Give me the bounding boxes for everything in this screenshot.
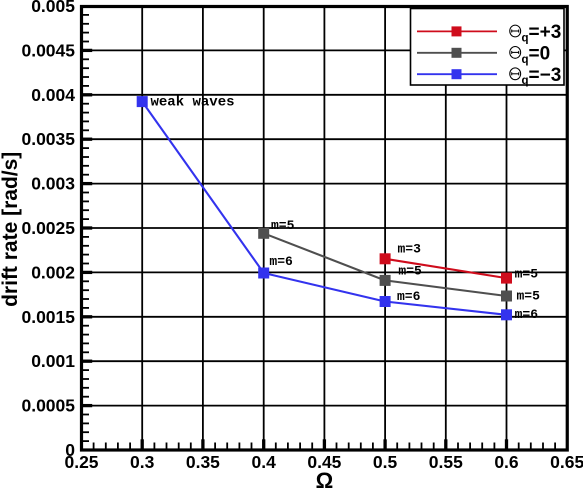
y minor tick [83,147,89,149]
svg-text:m=6: m=6 [397,289,421,304]
x minor tick [287,443,289,449]
svg-text:weak waves: weak waves [151,94,235,110]
y minor tick [83,23,89,25]
legend row 1 marker [452,26,462,36]
x minor tick [153,443,155,449]
y gridline v=0.0025 [82,227,568,229]
y minor tick [83,298,89,300]
y minor tick [83,387,89,389]
legend row 3 Theta symbol [510,68,521,80]
legend row 2 marker [452,48,462,58]
x minor tick [190,443,192,449]
series Theta_q=-3 line (blue) [142,102,506,315]
y minor tick [83,192,89,194]
y major tick 0.003 [83,182,92,185]
x minor tick [469,443,471,449]
x minor tick [214,443,216,449]
x minor tick [408,443,410,449]
y gridline v=0.002 [82,271,568,273]
x minor tick [336,443,338,449]
marker gray Omega=0.6 [501,291,512,302]
svg-text:0.004: 0.004 [31,85,75,105]
legend row 2 Theta symbol [510,47,521,59]
svg-text:q: q [522,32,529,44]
svg-text:0.65: 0.65 [550,452,583,472]
y major tick 0.001 [83,360,92,363]
y gridline v=0.001 [82,360,568,362]
y minor tick [83,378,89,380]
y minor tick [83,236,89,238]
x major tick 0.3 [141,439,144,448]
y minor tick [83,85,89,87]
y minor tick [83,263,89,265]
x major tick 0.5 [383,439,386,448]
marker red Omega=0.6 [501,273,512,284]
x minor tick [238,443,240,449]
svg-text:0.0015: 0.0015 [21,307,75,327]
y minor tick [83,325,89,327]
x minor tick [481,443,483,449]
svg-text:m=5: m=5 [517,289,541,304]
y minor tick [83,174,89,176]
y minor tick [83,58,89,60]
x gridline Omega=0.55 [445,6,447,450]
series Theta_q=+3 line (red) [385,259,506,278]
svg-text:Ω: Ω [316,468,334,488]
y minor tick [83,289,89,291]
x gridline Omega=0.35 [202,6,204,450]
y major tick 0.0015 [83,315,92,318]
y minor tick [83,245,89,247]
x minor tick [129,443,131,449]
y minor tick [83,32,89,34]
y minor tick [83,76,89,78]
x minor tick [178,443,180,449]
svg-text:0.3: 0.3 [130,452,155,472]
svg-text:0.001: 0.001 [31,351,75,371]
y minor tick [83,307,89,309]
x minor tick [360,443,362,449]
svg-text:0.5: 0.5 [373,452,398,472]
y minor tick [83,396,89,398]
svg-text:m=6: m=6 [515,307,539,322]
x major tick 0.45 [323,439,326,448]
y minor tick [83,156,89,158]
x minor tick [433,443,435,449]
y major tick 0.0025 [83,226,92,229]
x minor tick [117,443,119,449]
x gridline Omega=0.5 [384,6,386,450]
y minor tick [83,254,89,256]
y minor tick [83,369,89,371]
y minor tick [83,342,89,344]
svg-text:0.002: 0.002 [31,262,75,282]
x minor tick [554,443,556,449]
y major tick 0.0035 [83,138,92,141]
y minor tick [83,422,89,424]
x gridline Omega=0.3 [141,6,143,450]
x minor tick [457,443,459,449]
y major tick 0.004 [83,93,92,96]
svg-text:m=5: m=5 [398,264,422,279]
y minor tick [83,431,89,433]
y gridline v=0.0035 [82,138,568,140]
x gridline Omega=0.4 [263,6,265,450]
x minor tick [105,443,107,449]
x minor tick [275,443,277,449]
y minor tick [83,280,89,282]
y minor tick [83,67,89,69]
y minor tick [83,200,89,202]
svg-text:0.0025: 0.0025 [21,218,75,238]
marker blue Omega=0.4 [258,268,269,279]
marker gray Omega=0.5 [380,275,391,286]
x gridline Omega=0.6 [506,6,508,450]
svg-text:0.25: 0.25 [64,452,98,472]
marker red Omega=0.5 [380,253,391,264]
x minor tick [348,443,350,449]
x minor tick [372,443,374,449]
x minor tick [530,443,532,449]
y minor tick [83,120,89,122]
marker blue Omega=0.6 [501,309,512,320]
x minor tick [421,443,423,449]
marker blue Omega=0.3 [137,96,148,107]
x minor tick [226,443,228,449]
x minor tick [311,443,313,449]
svg-text:drift rate [rad/s]: drift rate [rad/s] [0,152,22,307]
svg-text:m=6: m=6 [269,254,293,269]
y minor tick [83,165,89,167]
x major tick 0.4 [262,439,265,448]
x major tick 0.35 [201,439,204,448]
svg-text:q: q [522,75,529,87]
x minor tick [518,443,520,449]
y minor tick [83,129,89,131]
y minor tick [83,112,89,114]
svg-text:0.0045: 0.0045 [21,40,75,60]
y minor tick [83,103,89,105]
y major tick 0.0045 [83,49,92,52]
svg-text:=−3: =−3 [529,65,562,86]
legend row 2 line [417,52,497,54]
svg-text:m=5: m=5 [515,266,539,281]
y minor tick [83,334,89,336]
svg-text:0.4: 0.4 [252,452,277,472]
y minor tick [83,218,89,220]
x minor tick [251,443,253,449]
x major tick 0.6 [505,439,508,448]
series Theta_q=0 line (gray) [264,233,507,296]
marker gray Omega=0.4 [258,228,269,239]
svg-text:0.35: 0.35 [186,452,220,472]
x minor tick [396,443,398,449]
x minor tick [493,443,495,449]
legend row 1 line [417,30,497,32]
plot frame / axes spines [82,7,568,451]
y major tick 0.0005 [83,404,92,407]
svg-text:=+3: =+3 [529,22,562,43]
y minor tick [83,209,89,211]
svg-text:0.003: 0.003 [31,174,75,194]
y minor tick [83,414,89,416]
svg-text:0.6: 0.6 [494,452,519,472]
y minor tick [83,14,89,16]
svg-text:=0: =0 [529,43,551,64]
legend row 3 marker [452,69,462,79]
y gridline v=0.003 [82,183,568,185]
y minor tick [83,351,89,353]
y minor tick [83,41,89,43]
legend box [411,9,565,86]
svg-text:q: q [522,54,529,66]
svg-text:m=3: m=3 [398,242,422,257]
marker blue Omega=0.5 [380,296,391,307]
svg-text:0.55: 0.55 [429,452,463,472]
y major tick 0.002 [83,271,92,274]
x major tick 0.55 [444,439,447,448]
x minor tick [542,443,544,449]
legend row 1 Theta symbol [510,25,521,37]
y gridline v=0.0045000000000000005 [82,49,568,51]
y gridline v=0.004 [82,94,568,96]
y gridline v=0.0015 [82,316,568,318]
y minor tick [83,440,89,442]
x gridline Omega=0.45 [323,6,325,450]
svg-text:0.0005: 0.0005 [21,396,75,416]
y gridline v=0.0005 [82,405,568,407]
svg-text:m=5: m=5 [271,218,295,233]
x minor tick [299,443,301,449]
svg-text:0.0035: 0.0035 [21,129,75,149]
x minor tick [93,443,95,449]
legend row 3 line [417,73,497,75]
x minor tick [166,443,168,449]
svg-text:0.005: 0.005 [31,0,75,16]
